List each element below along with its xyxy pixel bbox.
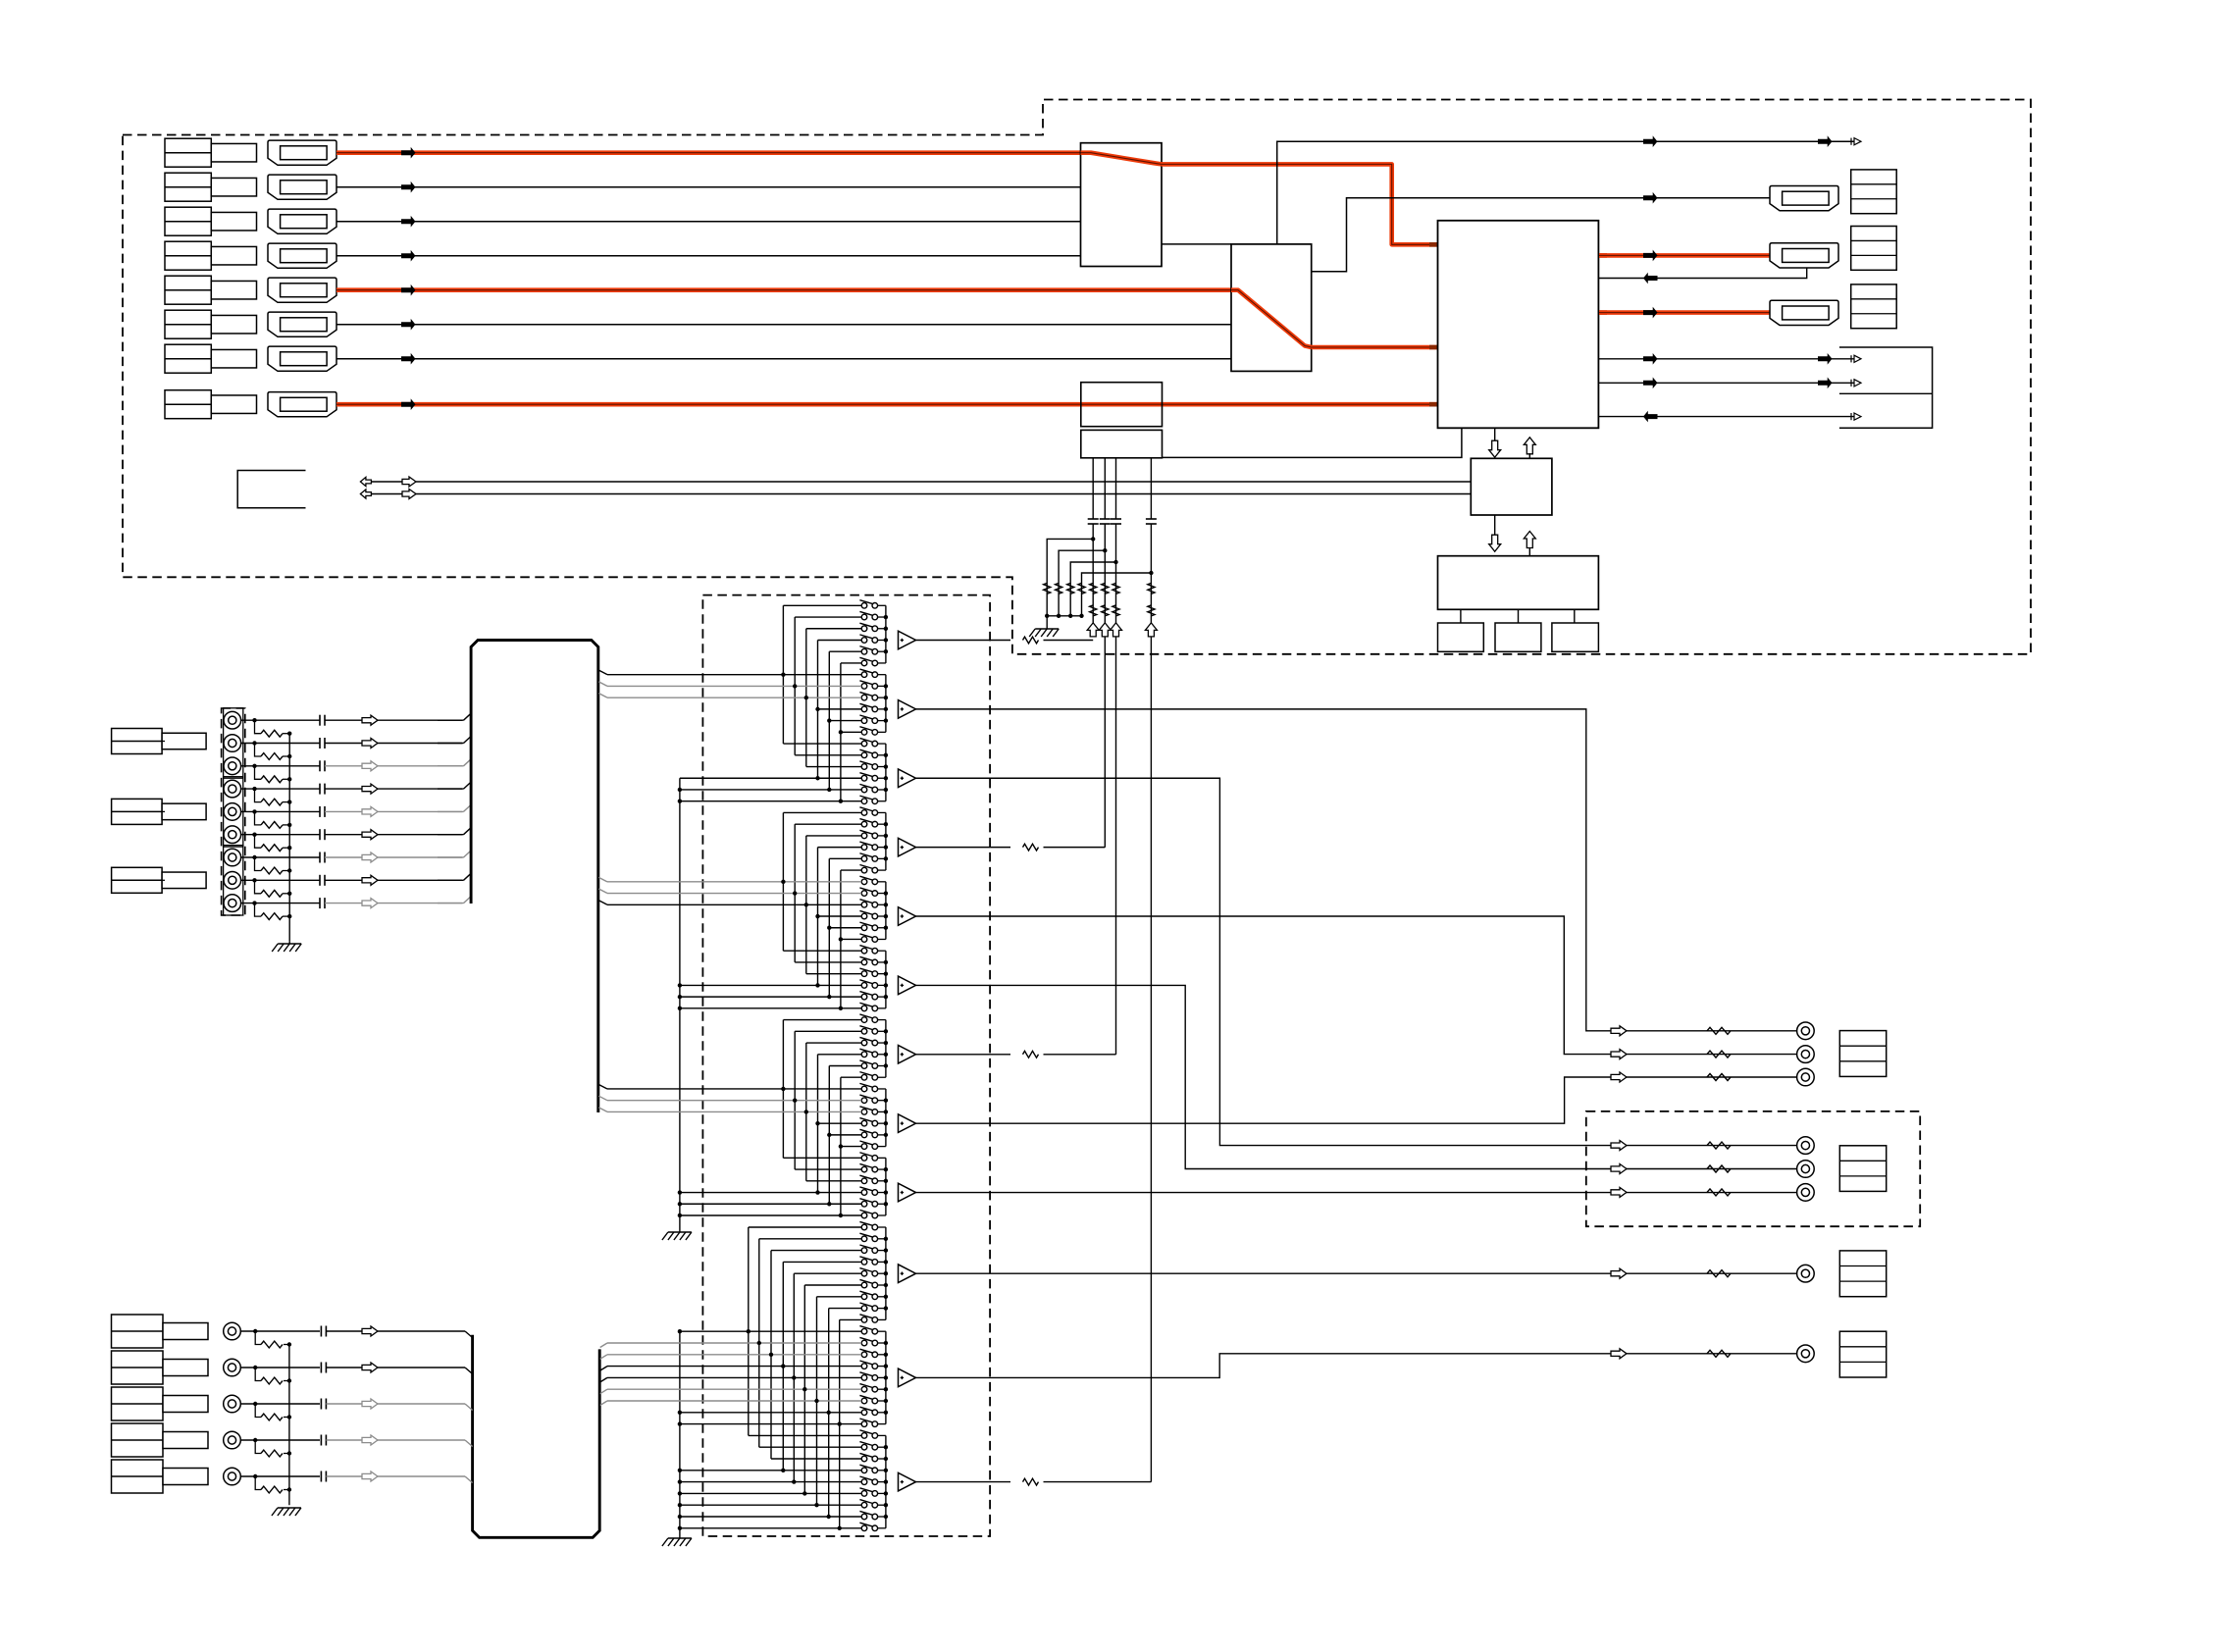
switch row u24 bbox=[861, 867, 867, 873]
switch row u44 bbox=[861, 1098, 867, 1104]
series resistor 2 bbox=[1090, 605, 1097, 616]
video input ground bus bbox=[288, 1345, 290, 1506]
coupling capacitor bbox=[1100, 518, 1111, 520]
wire HDMI4 to switch bbox=[336, 255, 1081, 257]
ground bus (lower matrix) bbox=[679, 1331, 681, 1538]
arrow on HDMI7 wire bbox=[401, 353, 416, 365]
matrix bus column 1.d bbox=[817, 640, 819, 778]
RCA jack audio in 2 bbox=[224, 735, 241, 752]
capacitor audio in 9 bbox=[319, 898, 321, 908]
resistor video in 5 bbox=[261, 1486, 283, 1493]
bus v2 from U5 bbox=[1104, 458, 1106, 519]
video in 2 label box bbox=[112, 1351, 164, 1384]
bus v3 from U5 bbox=[1115, 458, 1117, 519]
signal arrow up bbox=[1087, 623, 1099, 637]
signal arrow up bbox=[1145, 623, 1157, 637]
wire audio in 9 bbox=[241, 903, 320, 904]
output bus group L2 bbox=[885, 1331, 887, 1423]
switch row u28 bbox=[861, 913, 867, 919]
switch row u29 bbox=[861, 925, 867, 931]
pull-down common bus to ground bbox=[1047, 615, 1081, 617]
output bus group 5 bbox=[885, 882, 887, 940]
buffer amp A2 bbox=[899, 700, 916, 719]
HDMI input 3 label box bbox=[165, 207, 211, 235]
wire audio in 7 bbox=[241, 856, 320, 858]
switch row u9 bbox=[861, 695, 867, 700]
output RCA jack bbox=[1797, 1046, 1815, 1063]
switch row u13 bbox=[861, 741, 867, 747]
red output U3 to HDMI out J10 bbox=[1599, 253, 1607, 258]
buffer amp AL3 bbox=[899, 1472, 916, 1491]
series resistor bbox=[1090, 583, 1097, 594]
audio input group 3 frame bbox=[224, 846, 243, 915]
resistor video in 3 bbox=[261, 1414, 283, 1420]
buffer amp A6 bbox=[899, 976, 916, 995]
rec output row bbox=[1611, 1141, 1627, 1151]
control wire A bbox=[360, 481, 1471, 483]
switch row u46 bbox=[861, 1120, 867, 1126]
buffer amp A9 bbox=[899, 1183, 916, 1202]
switch row l16 bbox=[861, 1398, 867, 1404]
resistor audio in 9 bbox=[261, 913, 283, 920]
capacitor audio in 4 bbox=[319, 784, 321, 795]
switch matrix dashed box bbox=[702, 595, 990, 1536]
output bus group 8 bbox=[885, 1089, 887, 1147]
output RCA jack bbox=[1797, 1022, 1815, 1040]
system control box (left) bbox=[237, 471, 305, 508]
wire monitor out 1 (top) bbox=[1277, 141, 1854, 244]
wire U3 digital in bbox=[1598, 416, 1854, 418]
arrow on HDMI8 wire bbox=[401, 398, 416, 410]
wire amp A4 out bbox=[916, 847, 1011, 849]
switch row u38 bbox=[861, 1029, 867, 1035]
output bus group 3 bbox=[885, 744, 887, 801]
wire monitor out 2 to HDMI out J9 bbox=[1312, 198, 1770, 272]
HDMI input 4 label box bbox=[165, 241, 211, 270]
DSP box U7 bbox=[1438, 556, 1599, 610]
video in 3 label box bbox=[112, 1387, 164, 1420]
audio input dashed strip bbox=[222, 708, 245, 915]
HDMI input 7 label box bbox=[165, 344, 211, 373]
J11 pin box bbox=[1851, 284, 1897, 329]
junction + pull-down resistor bbox=[1149, 571, 1153, 575]
matrix bus column 2.e bbox=[828, 858, 830, 997]
RCA jack audio in 7 bbox=[224, 849, 241, 866]
buffer amp A8 bbox=[899, 1114, 916, 1133]
red path inside U1 bbox=[1081, 153, 1163, 165]
switch row l6 bbox=[861, 1282, 867, 1288]
upper slab output fan bbox=[598, 670, 607, 675]
bus v1 from U5 bbox=[1092, 458, 1094, 519]
output bus group 4 bbox=[885, 812, 887, 870]
switch row u37 bbox=[861, 1017, 867, 1023]
wire audio in 2 bbox=[241, 743, 320, 745]
capacitor video in 2 bbox=[320, 1363, 322, 1373]
switch row u5 bbox=[861, 648, 867, 654]
arrow on HDMI2 wire bbox=[401, 181, 416, 193]
HDMI return wire from J10 bbox=[1598, 268, 1806, 279]
switch row l10 bbox=[861, 1328, 867, 1334]
buffer amp A5 bbox=[899, 907, 916, 926]
audio input ground bus bbox=[288, 734, 290, 942]
wire video in 3 bbox=[240, 1403, 320, 1405]
signal arrow up bbox=[1099, 623, 1111, 637]
output bus group 1 bbox=[885, 605, 887, 663]
digital IO connector bracket bbox=[1839, 347, 1933, 428]
audio output row bbox=[1611, 1072, 1627, 1082]
HDMI input 5 label box bbox=[165, 276, 211, 304]
wire video in 4 bbox=[240, 1439, 320, 1441]
capacitor audio in 7 bbox=[319, 852, 321, 863]
HDMI out connector J11 bbox=[1770, 300, 1838, 325]
wire HDMI3 to switch bbox=[336, 221, 1081, 223]
capacitor video in 4 bbox=[320, 1435, 322, 1446]
matrix bus column L.5 bbox=[793, 1273, 795, 1481]
capacitor audio in 5 bbox=[319, 806, 321, 817]
hollow arrows on control wire bbox=[360, 477, 371, 486]
audio output row bbox=[1611, 1026, 1627, 1036]
capacitor audio in 1 bbox=[319, 715, 321, 726]
rec output row bbox=[1611, 1164, 1627, 1174]
matrix bus column 2.b bbox=[794, 824, 796, 962]
input selector bus (upper slab) bbox=[471, 641, 598, 1113]
switch row u51 bbox=[861, 1178, 867, 1184]
HDMI input connector J7 bbox=[268, 346, 336, 371]
output bus group 6 bbox=[885, 951, 887, 1008]
wire U3 to U5 bbox=[1163, 428, 1462, 457]
switch row l20 bbox=[861, 1444, 867, 1450]
output RCA jack bbox=[1797, 1137, 1815, 1155]
matrix bus column 1.b bbox=[794, 617, 796, 755]
RCA jack video in 5 bbox=[224, 1468, 241, 1485]
matrix bus column 1.c bbox=[805, 629, 807, 767]
switch row u17 bbox=[861, 787, 867, 793]
switch row l17 bbox=[861, 1410, 867, 1416]
resistor audio in 5 bbox=[261, 822, 283, 829]
hollow arrows on control wire bbox=[360, 490, 371, 498]
resistor audio in 7 bbox=[261, 867, 283, 874]
output bus group 7 bbox=[885, 1020, 887, 1078]
matrix bus column 1.a bbox=[782, 605, 784, 744]
arrow on HDMI3 wire bbox=[401, 216, 416, 228]
video in 5 label box bbox=[112, 1460, 164, 1493]
matrix bus column 2.a bbox=[782, 812, 784, 951]
arrow on HDMI5 wire bbox=[401, 284, 416, 296]
series resistor bbox=[1102, 583, 1109, 594]
switch row l9 bbox=[861, 1317, 867, 1323]
matrix bus column 2.c bbox=[805, 836, 807, 974]
red output U3 to HDMI out J11 bbox=[1599, 310, 1607, 315]
switch row u34 bbox=[861, 983, 867, 989]
switch row l12 bbox=[861, 1352, 867, 1358]
matrix bus column 3.c bbox=[805, 1043, 807, 1181]
wire amp A3 out to rec out 1 bbox=[916, 778, 1797, 1145]
wire amp A6 out to rec out 2 bbox=[916, 985, 1797, 1168]
switch row u15 bbox=[861, 764, 867, 770]
wire HDMI7 to switch bbox=[336, 358, 1231, 360]
video out 2 pin box bbox=[1839, 1331, 1886, 1377]
switch row u27 bbox=[861, 902, 867, 907]
wire audio in 8 bbox=[241, 879, 320, 881]
HDMI input connector J3 bbox=[268, 209, 336, 233]
switch row l26 bbox=[861, 1514, 867, 1520]
switch row u36 bbox=[861, 1006, 867, 1011]
rec out pin box bbox=[1839, 1146, 1886, 1192]
matrix bus column L.1 bbox=[748, 1227, 750, 1435]
rec output row bbox=[1611, 1187, 1627, 1197]
matrix bus column L.9 bbox=[839, 1319, 841, 1527]
switch row u48 bbox=[861, 1144, 867, 1150]
HDMI input 6 label box bbox=[165, 310, 211, 338]
switch row u7 bbox=[861, 672, 867, 678]
interface box U4 (below U1) bbox=[1081, 383, 1163, 427]
series resistor 2 bbox=[1112, 605, 1119, 616]
arrow video in 5 bbox=[362, 1471, 378, 1481]
switch row u20 bbox=[861, 821, 867, 827]
resistor audio in 1 bbox=[261, 730, 283, 737]
switch row u3 bbox=[861, 626, 867, 632]
HDMI input connector J6 bbox=[268, 312, 336, 336]
memory box 2 bbox=[1495, 623, 1541, 651]
buffer amp AL2 bbox=[899, 1368, 916, 1387]
switch row u6 bbox=[861, 660, 867, 666]
arrow audio in 7 bbox=[362, 852, 378, 862]
switch row u10 bbox=[861, 706, 867, 712]
arrow on HDMI6 wire bbox=[401, 319, 416, 331]
coupling capacitor bbox=[1146, 518, 1157, 520]
HDMI out connector J10 bbox=[1770, 243, 1838, 268]
matrix bus column 3.e bbox=[828, 1066, 830, 1205]
capacitor audio in 6 bbox=[319, 829, 321, 840]
arrow audio in 3 bbox=[362, 761, 378, 771]
arrow video in 1 bbox=[362, 1326, 378, 1336]
switch row u23 bbox=[861, 856, 867, 862]
RCA jack audio in 9 bbox=[224, 895, 241, 912]
switch row u16 bbox=[861, 775, 867, 781]
switch row u22 bbox=[861, 845, 867, 851]
RCA jack video in 4 bbox=[224, 1431, 241, 1449]
matrix bus column L.7 bbox=[816, 1297, 818, 1505]
switch row u49 bbox=[861, 1156, 867, 1162]
switch row u42 bbox=[861, 1074, 867, 1080]
junction + pull-down resistor bbox=[1103, 548, 1107, 552]
switch row u19 bbox=[861, 810, 867, 816]
switch row l3 bbox=[861, 1248, 867, 1254]
switch row l2 bbox=[861, 1236, 867, 1242]
switch row u52 bbox=[861, 1190, 867, 1196]
HDMI input 2 label box bbox=[165, 173, 211, 201]
main HDMI switch U3 bbox=[1438, 221, 1599, 428]
buffer amp A7 bbox=[899, 1045, 916, 1063]
switch row u2 bbox=[861, 614, 867, 620]
memory box 3 bbox=[1552, 623, 1599, 651]
switch row u33 bbox=[861, 971, 867, 977]
resistor audio in 3 bbox=[261, 776, 283, 783]
audio output row bbox=[1611, 1050, 1627, 1059]
HDMI input connector J4 bbox=[268, 243, 336, 268]
wire audio in 5 bbox=[241, 810, 320, 812]
switch row l13 bbox=[861, 1364, 867, 1369]
switch row u50 bbox=[861, 1166, 867, 1172]
switch row l25 bbox=[861, 1502, 867, 1508]
resistor video in 2 bbox=[261, 1377, 283, 1384]
junction + pull-down resistor bbox=[1113, 560, 1117, 564]
wire amp AL2 out to video out 2 bbox=[916, 1354, 1797, 1378]
audio out pin box bbox=[1839, 1031, 1886, 1077]
resistor audio in 2 bbox=[261, 753, 283, 760]
video in 4 label box bbox=[112, 1423, 164, 1457]
matrix bus column L.6 bbox=[803, 1285, 805, 1493]
switch row l22 bbox=[861, 1468, 867, 1473]
arrow audio in 1 bbox=[362, 715, 378, 725]
switch row l4 bbox=[861, 1260, 867, 1265]
coupling capacitor bbox=[1088, 518, 1099, 520]
resistor audio in 6 bbox=[261, 845, 283, 852]
input selector bus (lower slab) bbox=[473, 1335, 600, 1538]
ground bus (upper matrix) bbox=[679, 778, 681, 1229]
switch row u21 bbox=[861, 833, 867, 839]
control box U6 bbox=[1471, 458, 1552, 515]
red wire U2 out to U3 bbox=[1312, 345, 1438, 350]
audio input group 1 frame bbox=[224, 708, 243, 778]
switch row u14 bbox=[861, 752, 867, 758]
output bus group 9 bbox=[885, 1158, 887, 1215]
switch row u40 bbox=[861, 1052, 867, 1058]
switch row l24 bbox=[861, 1491, 867, 1497]
wire amp AL1 out to video out 1 bbox=[916, 1272, 1797, 1274]
arrow audio in 9 bbox=[362, 899, 378, 908]
RCA jack audio in 5 bbox=[224, 803, 241, 821]
red wire U1 out to U3 bbox=[1162, 164, 1438, 244]
capacitor video in 1 bbox=[320, 1326, 322, 1337]
switch row l15 bbox=[861, 1386, 867, 1392]
red wire HDMI1 to switch U1 bbox=[336, 150, 1081, 155]
switch row l5 bbox=[861, 1270, 867, 1276]
switch row u12 bbox=[861, 730, 867, 736]
wire amp A1 out bbox=[916, 639, 1011, 641]
switch U1 bbox=[1081, 143, 1163, 267]
memory box 1 bbox=[1438, 623, 1484, 651]
wire amp AL3 out bbox=[916, 1481, 1011, 1483]
arrow audio in 5 bbox=[362, 806, 378, 816]
switch row u11 bbox=[861, 718, 867, 724]
switch row l18 bbox=[861, 1421, 867, 1427]
wire U3 digital out 2 bbox=[1598, 382, 1854, 384]
wire amp A7 out bbox=[916, 1054, 1011, 1056]
RCA jack audio in 6 bbox=[224, 826, 241, 844]
video in 1 label box bbox=[112, 1315, 164, 1348]
matrix bus column 3.f bbox=[840, 1077, 842, 1215]
RCA jack video in 3 bbox=[224, 1395, 241, 1413]
output RCA jack bbox=[1797, 1345, 1815, 1363]
audio group 3 label box bbox=[112, 867, 163, 893]
HDMI input connector J8 bbox=[268, 392, 336, 417]
series resistor 2 bbox=[1102, 605, 1109, 616]
switch row u35 bbox=[861, 994, 867, 1000]
junction + pull-down resistor bbox=[1091, 537, 1095, 541]
buffer amp AL1 bbox=[899, 1265, 916, 1283]
arrow on HDMI1 wire bbox=[401, 147, 416, 159]
J9 pin box bbox=[1851, 170, 1897, 214]
switch row l11 bbox=[861, 1340, 867, 1346]
RCA jack audio in 1 bbox=[224, 711, 241, 729]
series resistor bbox=[1148, 583, 1155, 594]
capacitor audio in 2 bbox=[319, 738, 321, 749]
rec out dashed box bbox=[1586, 1111, 1920, 1226]
wire amp A9 out to rec out 3 bbox=[916, 1192, 1797, 1194]
HDMI input connector J5 bbox=[268, 278, 336, 302]
bus arrows U6 to U7 bbox=[1489, 535, 1501, 551]
RCA jack video in 1 bbox=[224, 1322, 241, 1340]
HDMI input 1 label box bbox=[165, 138, 211, 167]
switch row u26 bbox=[861, 891, 867, 897]
switch row l27 bbox=[861, 1525, 867, 1531]
switch row u32 bbox=[861, 959, 867, 965]
output RCA jack bbox=[1797, 1184, 1815, 1202]
video out 2 row bbox=[1611, 1349, 1627, 1359]
interface box U5 bbox=[1081, 430, 1163, 457]
RCA jack audio in 4 bbox=[224, 780, 241, 798]
RCA jack audio in 8 bbox=[224, 872, 241, 890]
audio group 2 label box bbox=[112, 799, 163, 824]
switch row l1 bbox=[861, 1224, 867, 1230]
J10 pin box bbox=[1851, 227, 1897, 271]
arrow audio in 4 bbox=[362, 784, 378, 794]
video out 1 pin box bbox=[1839, 1251, 1886, 1297]
RCA jack audio in 3 bbox=[224, 757, 241, 775]
RCA jack video in 2 bbox=[224, 1359, 241, 1376]
capacitor video in 3 bbox=[320, 1399, 322, 1410]
switch row u53 bbox=[861, 1201, 867, 1207]
switch row u45 bbox=[861, 1110, 867, 1115]
output bus group L3 bbox=[885, 1435, 887, 1527]
matrix bus column 3.b bbox=[794, 1031, 796, 1169]
capacitor audio in 8 bbox=[319, 875, 321, 886]
switch row l14 bbox=[861, 1375, 867, 1381]
switch row u31 bbox=[861, 948, 867, 954]
audio input group 2 frame bbox=[224, 777, 243, 847]
wire amp A8 out to audio out 3 bbox=[916, 1077, 1797, 1123]
matrix bus column 2.d bbox=[817, 848, 819, 986]
arrow video in 2 bbox=[362, 1363, 378, 1372]
output bus group 2 bbox=[885, 675, 887, 733]
resistor video in 4 bbox=[261, 1450, 283, 1457]
resistor audio in 4 bbox=[261, 799, 283, 805]
wire amp A5 out to audio out 2 bbox=[916, 916, 1797, 1055]
HDMI input 8 label box bbox=[165, 390, 211, 419]
wire U3 digital out 1 bbox=[1598, 358, 1854, 360]
matrix bus column 1.f bbox=[840, 663, 842, 801]
resistor audio in 8 bbox=[261, 890, 283, 897]
switch row l7 bbox=[861, 1294, 867, 1300]
red path inside U2 bbox=[1231, 290, 1312, 347]
buffer amp A4 bbox=[899, 838, 916, 856]
matrix bus column L.2 bbox=[758, 1239, 760, 1447]
switch row u54 bbox=[861, 1213, 867, 1218]
wire audio in 6 bbox=[241, 834, 320, 836]
coupling capacitor bbox=[1111, 518, 1121, 520]
output RCA jack bbox=[1797, 1265, 1815, 1282]
series resistor bbox=[1112, 583, 1119, 594]
lower slab output fan bbox=[600, 1343, 607, 1348]
switch row l8 bbox=[861, 1306, 867, 1312]
wire video in 2 bbox=[240, 1367, 320, 1368]
switch row l21 bbox=[861, 1456, 867, 1462]
wire video in 5 bbox=[240, 1475, 320, 1477]
buffer amp A3 bbox=[899, 769, 916, 788]
matrix bus column 2.f bbox=[840, 870, 842, 1008]
memory box stubs bbox=[1460, 609, 1462, 623]
